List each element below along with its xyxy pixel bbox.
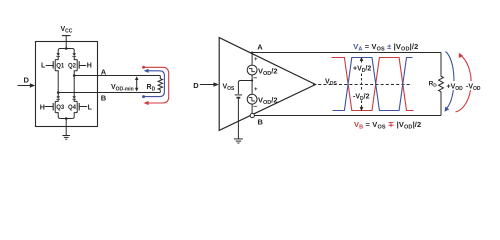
svg-text:B: B (258, 117, 264, 126)
wire right branch Q2 source down to Q4 (73, 76, 75, 97)
ground (right circuit) (234, 139, 243, 143)
wire battery to ground (237, 99, 239, 139)
label +VOD (blue) (446, 81, 463, 92)
wire A output (74, 75, 160, 77)
source V1 VOD/2 (square-wave) (247, 65, 257, 75)
wire chain A to source V1 (251, 53, 253, 66)
op-amp driver triangle (219, 38, 315, 131)
svg-text:Q1: Q1 (56, 63, 65, 69)
red arc -VOD (456, 53, 472, 112)
svg-text:VA = VOS ± |VOD|/2: VA = VOS ± |VOD|/2 (353, 42, 418, 53)
wire diode D4 to Q4 (74, 100, 77, 102)
wire input D arrow (right) (200, 84, 214, 86)
transistor Q2 (74, 60, 86, 76)
wire V2 to node B (251, 104, 253, 113)
node: tail junction dot (65, 117, 68, 120)
node A junction dot (73, 74, 76, 77)
node: VCC junction dot (65, 47, 68, 50)
blue current loop (left) (142, 69, 164, 98)
label -VD/2 (red) (352, 91, 371, 103)
label -VOD (red) (466, 81, 483, 92)
svg-text:L: L (88, 104, 93, 111)
wire tail to ground (65, 119, 67, 136)
transistor Q3 (45, 101, 61, 118)
wire V1 to V2 (251, 75, 253, 94)
svg-text:H: H (40, 104, 45, 111)
wire diode D3 to Q3 (55, 100, 58, 102)
wire B output (58, 92, 160, 94)
node B open circle (250, 113, 254, 117)
battery VOS (235, 94, 242, 96)
svg-text:Q3: Q3 (56, 105, 65, 111)
svg-text:Q4: Q4 (68, 105, 77, 111)
wire left branch Q1 source down to Q3 (57, 76, 59, 97)
wire input D arrow (18, 85, 31, 87)
waveform VA (blue) (333, 58, 413, 111)
wire diode D2 to Q2 (74, 57, 77, 60)
diode D1 (above Q1) (56, 53, 60, 57)
svg-text:D: D (24, 75, 30, 84)
top rail (58, 49, 74, 54)
svg-text:A: A (257, 42, 263, 51)
svg-text:A: A (101, 67, 107, 76)
red current loop (left) (142, 66, 169, 105)
wire B line (right) (255, 115, 442, 117)
wire diode D1 to Q1 (55, 57, 58, 60)
node B junction dot (57, 91, 60, 94)
transistor Q4 (72, 101, 87, 118)
svg-text:Q2: Q2 (68, 63, 77, 69)
svg-text:–: – (253, 104, 257, 111)
wire VCC to top rail (65, 36, 67, 49)
VOD-min measurement arrow (135, 76, 139, 91)
VCC terminal bar (62, 35, 71, 37)
transistor Q1 (46, 60, 59, 76)
blue arc +VOD (445, 52, 454, 112)
svg-text:+: + (254, 57, 258, 63)
waveform VB (red) (332, 58, 414, 111)
svg-text:+: + (254, 87, 258, 93)
svg-text:L: L (41, 63, 46, 70)
svg-text:–: – (253, 75, 257, 82)
dashed VOS midline (313, 84, 412, 86)
bottom rail (60, 118, 72, 120)
svg-text:B: B (101, 94, 107, 103)
source V2 VOD/2 (square-wave) (247, 94, 257, 104)
diode D4 (above Q4) (72, 96, 76, 100)
driver box (36, 42, 98, 127)
wire A line (right) (250, 52, 442, 54)
measurement arrow +/-VD/2 (dashed vertical) (360, 57, 364, 111)
diode D2 (above Q2) (72, 53, 76, 57)
svg-text:H: H (87, 63, 92, 70)
label +VD/2 (blue) (352, 63, 372, 75)
svg-text:D: D (193, 81, 199, 90)
wire VOS branch (238, 81, 252, 95)
ground (left circuit) (62, 136, 70, 140)
diode D3 (above Q3) (56, 96, 60, 100)
